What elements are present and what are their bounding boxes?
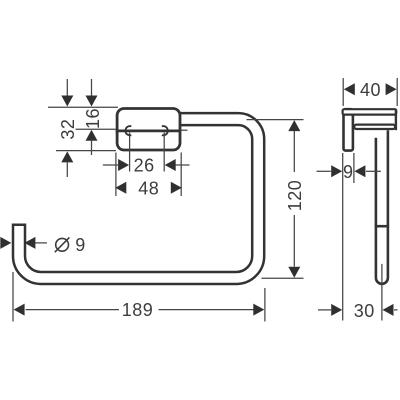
svg-text:9: 9 bbox=[75, 235, 86, 255]
dim 120: bottom arrow bbox=[293, 215, 295, 267]
side view: tube joint tick bbox=[375, 225, 389, 228]
dim 40: right extension line bbox=[396, 78, 398, 106]
side view: wall-side edge bbox=[395, 109, 397, 130]
dim 189: right line + arrow bbox=[159, 309, 254, 311]
svg-text:32: 32 bbox=[58, 119, 78, 140]
dim 48: left arrow bbox=[115, 182, 126, 194]
dim 120: top arrow bbox=[288, 120, 300, 131]
dim Ø9: diameter symbol bbox=[56, 238, 69, 251]
dim 40: left arrow bbox=[344, 83, 355, 95]
dim 26: left arrow + tail bbox=[103, 164, 118, 166]
svg-text:16: 16 bbox=[83, 108, 103, 129]
dim 189: left arrow + line bbox=[14, 304, 25, 316]
svg-text:189: 189 bbox=[122, 300, 154, 320]
svg-text:9: 9 bbox=[343, 162, 354, 182]
dim 120: bottom extension line bbox=[262, 277, 304, 279]
dim 9 side: left extension line (shared with 30) bbox=[342, 153, 344, 321]
seam extension line bbox=[76, 128, 116, 130]
dim 189: left extension line bbox=[12, 272, 14, 322]
right screw-hole arc bbox=[162, 126, 168, 135]
dim 26: right arrow + tail bbox=[165, 159, 176, 171]
dim 16: upper arrow bbox=[91, 79, 93, 96]
side view: hanging ring tube bbox=[376, 130, 388, 284]
dim 48: right arrow bbox=[171, 182, 182, 194]
dim 9 side: left arrow + tail bbox=[317, 170, 331, 172]
block seam line bbox=[116, 129, 181, 132]
dim 9 side: right arrow + tail bbox=[354, 165, 365, 177]
dim 48: left extension line bbox=[115, 153, 117, 197]
dim 32: top extension line bbox=[48, 106, 118, 108]
side view: top bar bbox=[343, 109, 397, 114]
dim 32: bottom extension line bbox=[56, 150, 116, 152]
dim 40: left extension line bbox=[342, 78, 344, 106]
dim 48: right extension line bbox=[180, 153, 182, 197]
dim 30: right extension line bbox=[381, 264, 383, 321]
dim 16: lower arrow bbox=[86, 130, 98, 141]
side view: front plate bbox=[344, 109, 353, 150]
side view: arm tube bbox=[354, 125, 395, 129]
svg-text:120: 120 bbox=[285, 180, 305, 212]
svg-text:48: 48 bbox=[138, 178, 159, 198]
towel ring tube (front view) bbox=[19, 119, 258, 278]
dim 32: upper arrow bbox=[66, 79, 68, 96]
dim 189: right extension line bbox=[264, 288, 266, 322]
dim 26: left extension line bbox=[129, 133, 131, 172]
svg-text:30: 30 bbox=[354, 301, 375, 321]
wall-mount block (front view) bbox=[117, 109, 180, 151]
dim 30: right arrow + tail bbox=[383, 304, 394, 316]
dim 32: lower arrow bbox=[61, 151, 73, 162]
dim 30: left arrow + tail bbox=[318, 309, 331, 311]
dim 40: right arrow bbox=[386, 83, 397, 95]
dim Ø9: left arrow bbox=[0, 237, 11, 249]
dim 9 side: right extension line bbox=[353, 153, 355, 183]
dim Ø9: right arrow + tail bbox=[24, 237, 35, 249]
svg-text:26: 26 bbox=[134, 155, 155, 175]
dim 120: top extension line bbox=[247, 119, 304, 121]
left screw-hole arc bbox=[125, 126, 131, 135]
dim 26: right extension line bbox=[163, 133, 165, 172]
svg-text:40: 40 bbox=[360, 80, 381, 100]
